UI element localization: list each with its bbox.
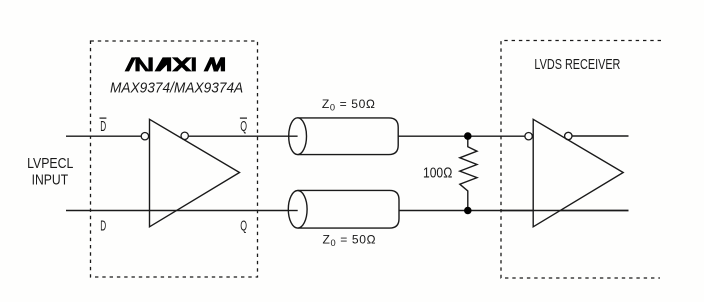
svg-text:LVPECL: LVPECL <box>27 155 73 172</box>
wire coax top to receiver <box>398 135 525 137</box>
wire D input (passes through triangle) <box>66 210 298 212</box>
svg-text:LVDS RECEIVER: LVDS RECEIVER <box>534 57 620 73</box>
bubble input D-bar <box>141 133 148 140</box>
wire D through coax (redraw center into ellipse) <box>288 210 297 212</box>
junction node bottom <box>464 207 472 215</box>
buffer triangle U1 (MAX9374) <box>150 119 240 227</box>
wire Q-bar to coax <box>188 135 297 137</box>
wire bottom through receiver triangle <box>501 210 629 212</box>
dashed box MAX9374 <box>91 41 258 277</box>
svg-text:100Ω: 100Ω <box>423 166 452 182</box>
wire D-bar input <box>66 135 141 137</box>
svg-text:D: D <box>100 119 106 135</box>
svg-text:Q: Q <box>240 119 247 135</box>
transmission line top (coax) <box>298 118 399 155</box>
receiver triangle (LVDS) <box>533 119 623 227</box>
svg-text:D: D <box>100 218 106 234</box>
MAXIM logo <box>125 58 224 71</box>
wire coax bottom to receiver (through triangle) <box>399 210 629 212</box>
bubble output Q-bar <box>181 132 188 139</box>
svg-text:MAX9374/MAX9374A: MAX9374/MAX9374A <box>110 80 243 96</box>
junction node top <box>464 132 472 140</box>
dashed box LVDS receiver (open right side) <box>501 41 661 279</box>
bubble receiver input <box>525 133 532 140</box>
wire receiver internal top <box>572 135 629 137</box>
bubble receiver hypotenuse <box>565 132 572 139</box>
transmission line bottom (coax) <box>298 190 399 228</box>
svg-text:Q: Q <box>240 218 247 234</box>
svg-text:INPUT: INPUT <box>32 171 69 188</box>
resistor 100 ohm <box>460 136 477 210</box>
